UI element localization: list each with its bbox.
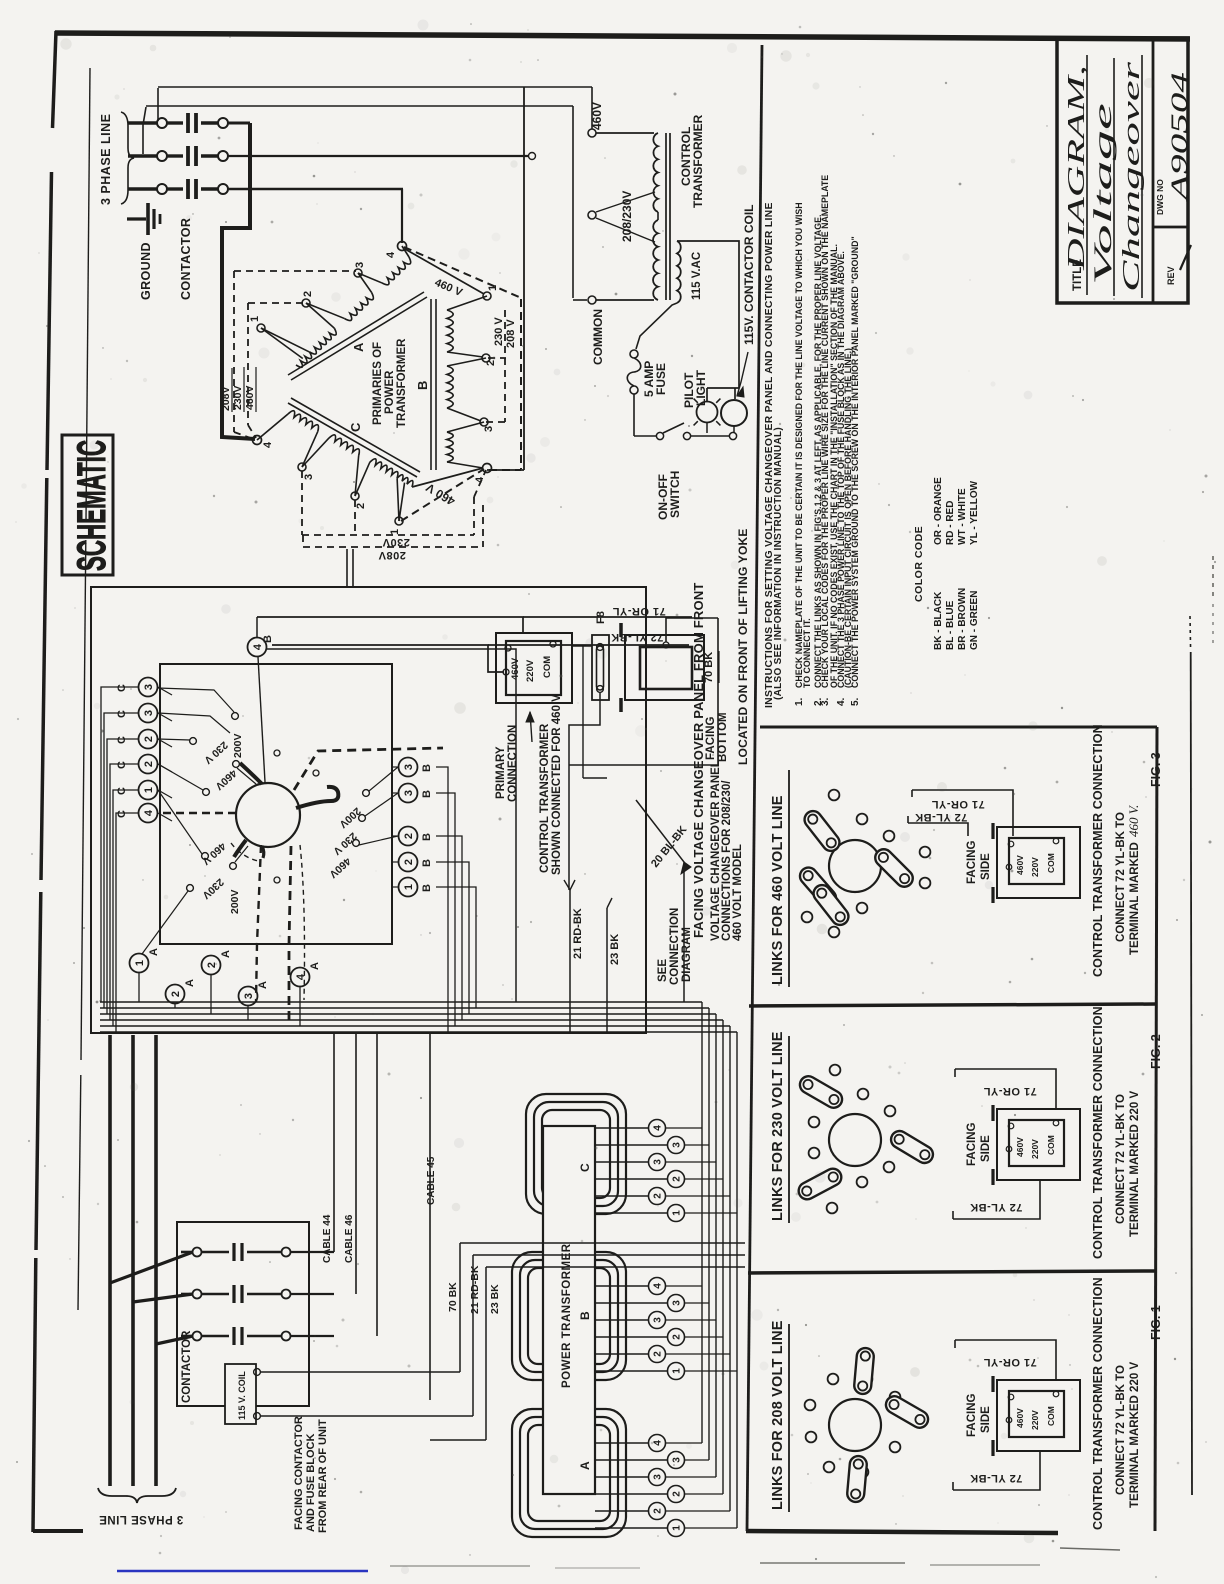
svg-text:208V: 208V — [378, 549, 406, 561]
svg-text:208V: 208V — [220, 386, 232, 411]
svg-text:LINKS FOR 230 VOLT LINE: LINKS FOR 230 VOLT LINE — [770, 1031, 786, 1221]
svg-text:3 PHASE LINE: 3 PHASE LINE — [99, 114, 113, 205]
svg-text:CONNECT 72 YL-BK TO: CONNECT 72 YL-BK TO — [1115, 1094, 1127, 1224]
svg-text:B: B — [578, 1311, 592, 1320]
svg-text:3: 3 — [243, 993, 255, 999]
svg-text:2: 2 — [653, 1193, 664, 1199]
svg-text:C: C — [348, 422, 363, 432]
svg-text:CONTROL TRANSFORMER CONNECTION: CONTROL TRANSFORMER CONNECTION — [1091, 1277, 1105, 1530]
svg-text:460V: 460V — [510, 657, 521, 680]
svg-text:C: C — [116, 684, 128, 692]
svg-text:C: C — [116, 761, 128, 769]
svg-text:72 YL-BK: 72 YL-BK — [970, 1472, 1023, 1484]
svg-text:CONNECT 72 YL-BK TO: CONNECT 72 YL-BK TO — [1115, 1365, 1127, 1495]
svg-text:220V: 220V — [1030, 1139, 1040, 1159]
svg-text:2: 2 — [206, 962, 218, 968]
svg-text:POWER: POWER — [384, 370, 396, 414]
svg-text:B: B — [421, 833, 433, 841]
svg-text:2: 2 — [143, 761, 155, 767]
svg-text:DWG NO: DWG NO — [1155, 179, 1165, 215]
svg-text:5.: 5. — [850, 697, 861, 706]
svg-text:23 BK: 23 BK — [489, 1284, 501, 1314]
svg-text:SCHEMATIC: SCHEMATIC — [70, 440, 114, 571]
svg-text:3: 3 — [143, 710, 155, 716]
svg-text:220V: 220V — [1030, 1410, 1040, 1430]
svg-text:FACING: FACING — [966, 1123, 978, 1167]
svg-text:1: 1 — [672, 1210, 683, 1216]
svg-text:SIDE: SIDE — [980, 1135, 992, 1162]
svg-text:460V: 460V — [1015, 1137, 1025, 1157]
svg-text:LOCATED ON FRONT OF LIFTING YO: LOCATED ON FRONT OF LIFTING YOKE — [736, 528, 750, 765]
svg-text:B: B — [421, 859, 433, 867]
svg-text:71 OR-YL: 71 OR-YL — [612, 605, 666, 617]
svg-text:C: C — [116, 736, 128, 744]
svg-text:SWITCH: SWITCH — [668, 471, 682, 518]
svg-text:A: A — [257, 981, 269, 989]
svg-text:TERMINAL MARKED: TERMINAL MARKED — [1129, 842, 1141, 955]
svg-text:208/230V: 208/230V — [620, 191, 634, 242]
svg-text:COM: COM — [1046, 1135, 1056, 1155]
svg-text:A: A — [148, 948, 160, 956]
svg-text:4: 4 — [262, 441, 274, 448]
svg-text:72 YL-BK: 72 YL-BK — [611, 631, 664, 643]
svg-text:TRANSFORMER: TRANSFORMER — [691, 114, 705, 208]
svg-text:21 RD-BK: 21 RD-BK — [572, 908, 584, 959]
svg-text:COM: COM — [1046, 1406, 1056, 1426]
svg-text:460V: 460V — [590, 102, 604, 130]
svg-text:GN - GREEN: GN - GREEN — [969, 591, 980, 650]
svg-text:1: 1 — [389, 529, 401, 535]
svg-text:B: B — [415, 381, 430, 390]
svg-text:23 BK: 23 BK — [609, 934, 621, 965]
svg-text:B: B — [421, 764, 433, 772]
svg-text:3: 3 — [143, 684, 155, 690]
svg-text:B: B — [262, 635, 274, 643]
svg-text:TERMINAL MARKED 220 V: TERMINAL MARKED 220 V — [1129, 1091, 1141, 1237]
svg-text:3 PHASE LINE: 3 PHASE LINE — [99, 1513, 184, 1525]
svg-text:70 BK: 70 BK — [703, 652, 715, 683]
svg-text:3: 3 — [483, 426, 495, 432]
svg-text:YL - YELLOW: YL - YELLOW — [969, 480, 980, 545]
svg-text:TERMINAL MARKED 220 V: TERMINAL MARKED 220 V — [1129, 1362, 1141, 1508]
svg-text:CONTROL TRANSFORMER: CONTROL TRANSFORMER — [539, 723, 551, 873]
svg-text:230 V: 230 V — [493, 317, 505, 346]
svg-text:208 V: 208 V — [505, 319, 517, 348]
svg-text:C: C — [116, 710, 128, 718]
svg-text:Voltage: Voltage — [1090, 103, 1117, 285]
svg-text:2: 2 — [302, 291, 314, 297]
svg-text:TO CONNECT IT.: TO CONNECT IT. — [802, 618, 812, 688]
svg-text:71 OR-YL: 71 OR-YL — [931, 798, 985, 810]
svg-text:A: A — [351, 342, 366, 352]
svg-text:COLOR CODE: COLOR CODE — [913, 526, 925, 602]
svg-text:A: A — [578, 1461, 592, 1470]
svg-text:BR - BROWN: BR - BROWN — [957, 588, 968, 650]
svg-text:1: 1 — [672, 1525, 683, 1531]
svg-text:B: B — [421, 884, 433, 892]
svg-text:A: A — [184, 979, 196, 987]
svg-text:72 YL-BK: 72 YL-BK — [970, 1201, 1023, 1213]
svg-text:TRANSFORMER: TRANSFORMER — [396, 338, 408, 428]
svg-text:2: 2 — [485, 360, 497, 366]
svg-text:CABLE 46: CABLE 46 — [344, 1214, 355, 1263]
svg-text:3: 3 — [672, 1142, 683, 1148]
svg-text:(ALSO SEE INFORMATION IN INSTR: (ALSO SEE INFORMATION IN INSTRUCTION MAN… — [773, 427, 784, 700]
svg-text:220V: 220V — [1030, 857, 1040, 877]
svg-text:Changeover: Changeover — [1119, 61, 1145, 292]
svg-text:FIG. 3: FIG. 3 — [1149, 752, 1163, 787]
svg-text:2: 2 — [143, 736, 155, 742]
svg-text:1: 1 — [487, 285, 499, 291]
svg-text:CONNECT THE POWER SYSTEM GROUN: CONNECT THE POWER SYSTEM GROUND TO THE S… — [850, 236, 860, 688]
svg-text:POWER TRANSFORMER: POWER TRANSFORMER — [561, 1243, 573, 1388]
svg-text:230V: 230V — [232, 385, 244, 410]
svg-text:BK - BLACK: BK - BLACK — [933, 591, 944, 650]
svg-text:1: 1 — [134, 960, 146, 966]
svg-text:4: 4 — [143, 809, 155, 816]
svg-text:C: C — [578, 1163, 592, 1172]
svg-text:CONTACTOR: CONTACTOR — [181, 1330, 193, 1403]
svg-text:72 YL-BK: 72 YL-BK — [915, 811, 968, 823]
svg-text:CONTROL TRANSFORMER CONNECTION: CONTROL TRANSFORMER CONNECTION — [1091, 724, 1105, 977]
svg-text:115 V. COIL: 115 V. COIL — [237, 1371, 247, 1420]
svg-text:FACING VOLTAGE CHANGEOVER PANE: FACING VOLTAGE CHANGEOVER PANEL FROM FRO… — [691, 582, 706, 938]
svg-text:1: 1 — [403, 884, 415, 890]
svg-text:A: A — [309, 962, 321, 970]
svg-text:3: 3 — [303, 474, 315, 480]
svg-text:3: 3 — [354, 262, 366, 268]
svg-text:3: 3 — [403, 790, 415, 796]
svg-text:2: 2 — [672, 1491, 683, 1497]
svg-text:2: 2 — [672, 1176, 683, 1182]
svg-text:GROUND: GROUND — [139, 242, 153, 300]
svg-text:COMMON: COMMON — [591, 309, 605, 365]
svg-text:SIDE: SIDE — [980, 1406, 992, 1433]
svg-text:4: 4 — [653, 1283, 664, 1289]
svg-text:CABLE 44: CABLE 44 — [322, 1214, 333, 1263]
svg-text:3: 3 — [672, 1300, 683, 1306]
svg-text:FIG. 1: FIG. 1 — [1149, 1305, 1163, 1340]
svg-text:4: 4 — [252, 643, 264, 650]
svg-text:1.: 1. — [794, 697, 805, 706]
svg-text:AND FUSE BLOCK: AND FUSE BLOCK — [305, 1434, 317, 1532]
svg-text:3: 3 — [653, 1159, 664, 1165]
svg-text:3: 3 — [653, 1474, 664, 1480]
svg-text:4: 4 — [385, 251, 397, 258]
svg-text:3: 3 — [672, 1457, 683, 1463]
svg-text:COM: COM — [542, 656, 553, 678]
svg-text:DIAGRAM,: DIAGRAM, — [1064, 65, 1090, 272]
svg-text:B: B — [421, 790, 433, 798]
svg-text:FUSE: FUSE — [654, 363, 668, 395]
svg-text:2: 2 — [403, 833, 415, 839]
svg-text:A90504: A90504 — [1167, 72, 1192, 204]
svg-text:C: C — [116, 787, 128, 795]
svg-text:SHOWN CONNECTED FOR 460 V: SHOWN CONNECTED FOR 460 V — [551, 694, 563, 875]
svg-text:71 OR-YL: 71 OR-YL — [983, 1356, 1037, 1368]
svg-text:4: 4 — [653, 1440, 664, 1446]
svg-text:RD - RED: RD - RED — [945, 501, 956, 545]
svg-text:2: 2 — [653, 1351, 664, 1357]
svg-text:FACING: FACING — [966, 1394, 978, 1438]
svg-text:2: 2 — [672, 1334, 683, 1340]
svg-text:200V: 200V — [229, 889, 241, 914]
svg-text:PRIMARIES OF: PRIMARIES OF — [372, 342, 384, 425]
svg-text:OR - ORANGE: OR - ORANGE — [933, 477, 944, 545]
svg-text:WT - WHITE: WT - WHITE — [957, 488, 968, 545]
svg-text:2: 2 — [355, 503, 367, 509]
svg-text:460 V.: 460 V. — [1126, 804, 1141, 837]
svg-text:COM: COM — [1046, 853, 1056, 873]
svg-text:CONTROL TRANSFORMER CONNECTION: CONTROL TRANSFORMER CONNECTION — [1091, 1006, 1105, 1259]
svg-text:1: 1 — [143, 787, 155, 793]
svg-text:2: 2 — [653, 1508, 664, 1514]
svg-text:4: 4 — [653, 1125, 664, 1131]
svg-text:21 RD-BK: 21 RD-BK — [469, 1265, 481, 1314]
svg-text:200V: 200V — [232, 733, 244, 758]
svg-text:LIGHT: LIGHT — [694, 369, 708, 406]
svg-text:BL - BLUE: BL - BLUE — [945, 600, 956, 650]
svg-text:4: 4 — [474, 476, 486, 483]
svg-text:FROM REAR OF UNIT: FROM REAR OF UNIT — [317, 1419, 329, 1533]
svg-text:460 VOLT MODEL: 460 VOLT MODEL — [732, 844, 744, 941]
svg-text:115 V.AC: 115 V.AC — [691, 252, 703, 300]
svg-text:SEE: SEE — [657, 959, 669, 982]
svg-text:230V: 230V — [382, 536, 410, 548]
svg-text:F8: F8 — [595, 611, 607, 624]
svg-text:C: C — [116, 810, 128, 818]
svg-text:CONNECTION: CONNECTION — [669, 908, 681, 985]
svg-text:4: 4 — [295, 973, 307, 980]
svg-text:FACING: FACING — [966, 841, 978, 885]
svg-text:220V: 220V — [525, 659, 536, 682]
svg-text:CONTACTOR: CONTACTOR — [179, 218, 193, 300]
svg-text:4.: 4. — [836, 697, 847, 706]
svg-text:REV: REV — [1166, 266, 1176, 285]
svg-text:FIG. 2: FIG. 2 — [1149, 1034, 1163, 1069]
svg-text:2: 2 — [170, 991, 182, 997]
svg-text:460V: 460V — [244, 385, 256, 410]
svg-text:LINKS FOR 460 VOLT LINE: LINKS FOR 460 VOLT LINE — [770, 795, 786, 985]
svg-text:2: 2 — [403, 859, 415, 865]
svg-text:115V. CONTACTOR COIL: 115V. CONTACTOR COIL — [742, 205, 756, 345]
svg-text:3.: 3. — [820, 697, 831, 706]
svg-text:3: 3 — [653, 1317, 664, 1323]
svg-text:FACING: FACING — [705, 717, 717, 761]
svg-text:LINKS FOR 208 VOLT LINE: LINKS FOR 208 VOLT LINE — [770, 1320, 786, 1510]
svg-text:70 BK: 70 BK — [447, 1282, 459, 1312]
svg-text:CABLE 45: CABLE 45 — [426, 1156, 437, 1205]
svg-text:SIDE: SIDE — [980, 853, 992, 880]
svg-text:CONNECTION: CONNECTION — [507, 725, 519, 802]
svg-text:1: 1 — [249, 316, 261, 322]
svg-text:PRIMARY: PRIMARY — [495, 746, 507, 799]
svg-text:FACING CONTACTOR: FACING CONTACTOR — [293, 1416, 305, 1530]
svg-text:71 OR-YL: 71 OR-YL — [983, 1085, 1037, 1097]
svg-text:BOTTOM: BOTTOM — [717, 712, 729, 762]
svg-text:A: A — [220, 950, 232, 958]
svg-text:460V: 460V — [1015, 1408, 1025, 1428]
svg-text:3: 3 — [403, 764, 415, 770]
svg-text:1: 1 — [672, 1368, 683, 1374]
svg-text:CHECK NAMEPLATE OF THE UNIT TO: CHECK NAMEPLATE OF THE UNIT TO BE CERTAI… — [794, 202, 804, 688]
svg-text:460V: 460V — [1015, 855, 1025, 875]
